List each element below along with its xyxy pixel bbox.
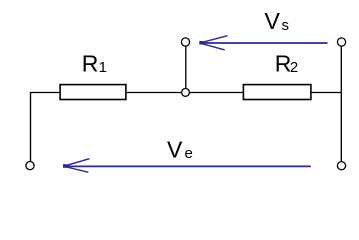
arrow Vs: tip (199, 41, 203, 45)
svg-text:R: R (82, 51, 99, 77)
node: bottom-right terminal (337, 162, 345, 170)
wire: left vertical (30, 92, 32, 161)
svg-text:s: s (282, 17, 290, 34)
arrow Ve: shaft (65, 165, 311, 167)
wire: R1 to middle node (126, 92, 182, 94)
wire: R2 to right vertical (311, 92, 342, 94)
svg-text:V: V (167, 136, 183, 162)
node: top-middle terminal (181, 38, 189, 46)
arrow Vs: shaft (201, 42, 328, 44)
svg-text:R: R (275, 51, 292, 77)
arrow Ve: upper barb (65, 159, 90, 166)
arrow Vs: lower barb (201, 43, 225, 50)
wire: middle node to R2 (190, 92, 244, 94)
svg-text:e: e (185, 145, 193, 162)
wire: right vertical (340, 47, 342, 162)
arrow Ve: lower barb (65, 167, 89, 173)
wire: left horizontal segment to R1 (30, 92, 61, 94)
arrow Vs: upper barb (201, 36, 228, 43)
wire: middle vertical from top terminal to node (185, 47, 187, 89)
svg-text:1: 1 (99, 59, 107, 76)
arrow Ve: tip (63, 164, 67, 168)
node: bottom-left terminal (26, 162, 34, 170)
svg-text:V: V (265, 8, 281, 34)
node: middle junction terminal (182, 89, 190, 97)
node: top-right terminal (337, 38, 345, 46)
svg-text:2: 2 (290, 59, 298, 76)
resistor R2 (243, 85, 311, 100)
resistor R1 (60, 85, 126, 100)
